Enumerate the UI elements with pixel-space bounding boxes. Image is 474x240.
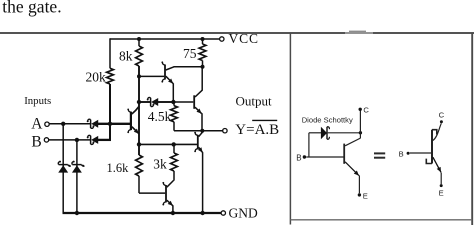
svg-text:GND: GND xyxy=(229,205,258,220)
schottky clamp diode (input A) xyxy=(59,166,67,172)
schottky diode (B-C clamp) xyxy=(321,128,326,139)
transistor Q3 base bar xyxy=(193,95,195,109)
svg-text:B: B xyxy=(399,149,404,158)
svg-text:Inputs: Inputs xyxy=(24,95,51,107)
transistor Q2 (schottky) base bar xyxy=(130,112,132,131)
node: Q6 emitter at GND rail xyxy=(171,211,175,215)
wire: emitter down to E xyxy=(358,175,360,193)
wire: Q1 base xyxy=(139,75,164,77)
transistor Q1 (schottky) base bar xyxy=(164,65,166,80)
node: 75 / Q1 collector / Q3 collector xyxy=(201,65,205,69)
resistor 3k xyxy=(171,153,178,171)
box bottom border xyxy=(290,219,472,221)
svg-text:C: C xyxy=(363,106,369,115)
GND terminal xyxy=(221,211,225,215)
svg-text:B: B xyxy=(296,153,301,162)
output terminal xyxy=(223,129,227,133)
wire: 3k bottom to Q6 collector xyxy=(173,171,175,181)
resistor 4.5k xyxy=(171,106,178,122)
node: 8k at VCC rail xyxy=(137,37,141,41)
Q3 collector xyxy=(195,90,202,97)
equivalence "=" sign xyxy=(374,152,385,154)
svg-text:VCC: VCC xyxy=(229,31,259,46)
wire: node to D3 xyxy=(139,101,151,103)
node: B clamp branch xyxy=(75,138,79,142)
input B terminal xyxy=(44,138,48,142)
faded smudge on rule xyxy=(349,31,366,33)
wire: 20k down to input node column xyxy=(109,84,111,140)
wire: input A lead xyxy=(49,123,90,125)
wire: rail to 75 xyxy=(202,39,204,44)
B terminal dot (U1) xyxy=(303,155,306,158)
schottky diode D3 xyxy=(152,99,158,106)
node: A clamp branch xyxy=(61,122,65,126)
Q6 emitter xyxy=(167,200,173,206)
wire: 4.5k bottom corner to output line xyxy=(173,122,175,131)
node: 75 at VCC rail xyxy=(201,37,205,41)
Q5 collector xyxy=(199,132,203,136)
wire: diode B to input node column xyxy=(98,139,111,141)
schottky input diode B xyxy=(92,137,98,144)
U1 collector diagonal xyxy=(345,138,360,146)
resistor 75 xyxy=(199,44,206,61)
svg-text:A: A xyxy=(31,116,43,133)
svg-text:1.6k: 1.6k xyxy=(107,161,130,175)
C terminal dot (U1) xyxy=(359,108,362,111)
node: 4.5k/3k column crossing xyxy=(172,142,176,146)
Q1 collector xyxy=(166,67,174,70)
wire: emitter to E xyxy=(440,173,442,185)
schottky transistor symbol base bar xyxy=(431,130,433,164)
wire: diode A to input node xyxy=(98,123,132,125)
node: output junction xyxy=(200,129,204,133)
C terminal dot xyxy=(440,120,443,123)
base wire from B xyxy=(410,152,431,154)
schottky input diode A xyxy=(92,121,98,128)
wire: B clamp column xyxy=(76,140,78,213)
box right border xyxy=(471,33,473,225)
Q3 emitter xyxy=(195,107,202,113)
Q1 emitter xyxy=(166,76,173,83)
svg-text:20k: 20k xyxy=(86,69,107,84)
wire: rail to 8k xyxy=(138,39,140,46)
node: Q1 emitter / D3 / 4.5k / Q3 base xyxy=(171,100,175,104)
transistor Q6 (schottky) base bar xyxy=(165,185,167,202)
resistor 20k xyxy=(107,68,114,84)
E terminal dot xyxy=(440,184,443,187)
schottky hook bottom xyxy=(426,159,432,164)
wire: D3 to Q3-base node xyxy=(158,101,174,103)
VCC rail wire xyxy=(110,38,220,40)
input A terminal xyxy=(45,122,49,126)
wire: base branch up to diode xyxy=(308,133,310,157)
Q2 collector xyxy=(132,107,139,115)
wire: VCC rail corner down to 20k xyxy=(109,38,111,68)
resistor 8k xyxy=(136,46,143,66)
wire: Q6 emitter to GND xyxy=(172,205,174,213)
node: Q5 emitter at GND rail xyxy=(200,211,204,215)
wire: node down to 4.5k xyxy=(173,102,175,106)
VCC terminal xyxy=(220,37,224,41)
U1 emitter xyxy=(345,162,359,176)
GND rail wire xyxy=(63,212,222,214)
svg-text:75: 75 xyxy=(183,46,197,61)
svg-text:Diode Schottky: Diode Schottky xyxy=(302,116,353,125)
schottky hook top xyxy=(432,130,437,135)
wire: middle column (8k bottom to 1.6k top) xyxy=(138,66,140,155)
wire: Q3 base xyxy=(173,101,193,103)
resistor 1.6k xyxy=(136,155,143,176)
svg-text:the gate.: the gate. xyxy=(2,0,61,16)
wire: input B lead xyxy=(49,139,90,141)
schottky clamp diode (input B) xyxy=(73,166,81,172)
svg-text:E: E xyxy=(363,192,368,201)
collector curve xyxy=(433,123,441,140)
node: phase-splitter emitter node xyxy=(137,142,141,146)
E terminal dot (U1) xyxy=(358,193,361,196)
panel divider / box left border xyxy=(289,33,291,225)
wire: Q3 emitter down to output node xyxy=(201,113,203,131)
wire: diode cathode to collector xyxy=(328,132,361,134)
svg-text:4.5k: 4.5k xyxy=(148,109,172,124)
svg-text:E: E xyxy=(439,189,444,198)
U1 base wire from B xyxy=(306,156,344,158)
wire: A clamp column xyxy=(62,124,64,213)
Q6 collector xyxy=(167,180,174,187)
panel transistor U1 base bar xyxy=(343,144,345,164)
svg-text:Y=A.B: Y=A.B xyxy=(235,122,279,138)
node: B clamp to GND xyxy=(75,211,79,215)
emitter with arrow xyxy=(433,157,441,172)
B terminal dot xyxy=(407,152,410,155)
U1 collector vertical xyxy=(359,111,361,139)
wire: 1.6k bottom to Q6 base corner xyxy=(138,176,140,193)
horizontal separator rule xyxy=(0,32,474,34)
svg-text:C: C xyxy=(439,110,445,119)
node: diode to collector vertical xyxy=(359,131,362,134)
Q2 emitter xyxy=(132,127,139,134)
node: diode D3 tap xyxy=(137,100,141,104)
wire: Q1 emitter down to node xyxy=(172,83,174,102)
wire: diode anode lead xyxy=(309,132,321,134)
wire: Q5 emitter to GND xyxy=(202,152,204,213)
svg-text:Output: Output xyxy=(236,94,273,109)
Q5 emitter xyxy=(199,147,203,152)
svg-text:B: B xyxy=(31,133,41,150)
svg-text:3k: 3k xyxy=(153,156,167,171)
wire: phase splitter node to Q5 base xyxy=(139,143,197,145)
transistor Q5 (schottky) base bar xyxy=(197,135,199,149)
wire: node down to 3k xyxy=(173,144,175,153)
node: Q1 base tap xyxy=(137,74,141,78)
output wire Y xyxy=(174,130,223,132)
node: column x A-line junction xyxy=(108,122,112,126)
svg-text:8k: 8k xyxy=(119,48,133,63)
wire: 75 bottom to collector node xyxy=(202,61,204,67)
